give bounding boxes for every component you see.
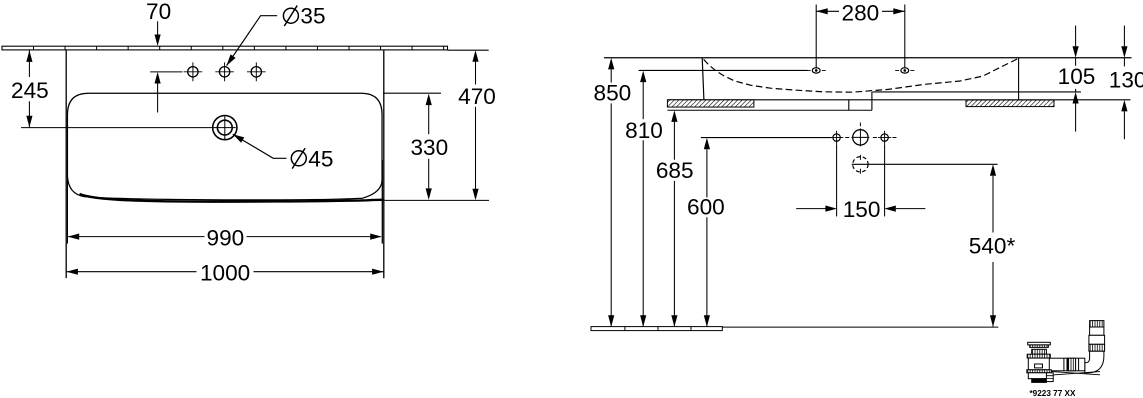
svg-text:150: 150: [843, 197, 881, 222]
basin right edge side: [1018, 58, 1020, 100]
svg-text:35: 35: [300, 3, 325, 28]
tap hole 3: [247, 62, 266, 81]
drain inner circle: [217, 120, 232, 135]
dim 470: [448, 50, 489, 189]
tap hole 2: [215, 62, 234, 81]
svg-text:*9223 77 XX: *9223 77 XX: [1030, 389, 1077, 398]
extension line rim top right: [383, 92, 441, 94]
drain outer circle: [213, 116, 237, 140]
svg-text:540*: 540*: [969, 234, 1016, 259]
svg-text:470: 470: [458, 84, 496, 109]
dim 130: [1123, 26, 1125, 140]
dashed drain hole circle: [853, 155, 868, 174]
wall bracket hatched left: [667, 100, 754, 107]
dim 245: [28, 50, 30, 127]
dim 850: [610, 69, 612, 326]
basin rim outline (top view): [67, 93, 382, 200]
label diameter 35 symbol: [283, 6, 298, 27]
horizontal pipe: [1045, 358, 1084, 371]
floor line: [722, 326, 998, 328]
svg-text:330: 330: [410, 135, 448, 160]
svg-text:245: 245: [11, 78, 49, 103]
dim 1000: [66, 271, 383, 273]
svg-text:685: 685: [656, 158, 694, 183]
drain fitting icon: [1027, 321, 1105, 383]
dim 990: [68, 236, 381, 238]
basin left edge side: [702, 58, 704, 100]
outlet channel line: [872, 91, 1081, 93]
rim edge extension right: [381, 160, 383, 244]
bowl profile dashed: [704, 59, 1018, 92]
extension lines down to 150 dim: [836, 144, 838, 216]
dim 810: [642, 82, 644, 326]
side view top surface line: [604, 57, 1132, 59]
ceramic bottom line: [667, 99, 1130, 101]
dim 600: [706, 149, 708, 326]
drain center line vertical: [224, 116, 226, 139]
mounting hole left: [807, 5, 826, 74]
dim 330: [428, 105, 430, 188]
basin front thick edge: [80, 194, 385, 202]
tap hole 1: [184, 62, 203, 81]
pop-up rod: [1048, 371, 1100, 375]
label diameter 35 leader: [227, 16, 278, 66]
vertical pipe: [1090, 321, 1104, 327]
svg-text:70: 70: [146, 0, 171, 24]
faucet hole reference line: [701, 137, 832, 139]
top mounting rail bar: [2, 46, 448, 50]
bracket underside line: [667, 109, 872, 111]
floor bar: [591, 327, 722, 331]
faucet hole small left: [830, 131, 843, 145]
extension line bottom right: [385, 199, 489, 201]
dim 685: [673, 122, 675, 327]
mounting hole right: [895, 5, 914, 74]
mounting hole center line: [639, 69, 808, 71]
svg-text:1000: 1000: [200, 260, 250, 285]
svg-text:600: 600: [687, 195, 725, 220]
faucet hole large center: [851, 123, 869, 147]
pop-up waste top plate: [1028, 342, 1051, 345]
dim 105: [1075, 26, 1077, 132]
svg-text:990: 990: [207, 225, 245, 250]
drain box left edge: [848, 100, 850, 110]
svg-text:280: 280: [842, 0, 880, 25]
svg-text:105: 105: [1058, 64, 1096, 89]
rail tick marks: [34, 46, 444, 50]
faucet hole small right: [878, 131, 891, 145]
dim 540*: [992, 176, 994, 327]
svg-text:45: 45: [308, 147, 333, 172]
drain center line horizontal: [21, 127, 236, 129]
svg-text:130: 130: [1109, 67, 1143, 92]
drain box right edge: [871, 92, 873, 110]
label diameter 45 leader: [233, 134, 287, 158]
dim 70: [150, 21, 182, 112]
dim 150: [796, 208, 925, 210]
svg-text:810: 810: [625, 118, 663, 143]
basin outer left edge: [65, 50, 67, 278]
line to 540 dim: [852, 163, 998, 165]
rim edge extension left: [66, 160, 68, 244]
elbow: [1085, 351, 1104, 373]
svg-text:850: 850: [594, 81, 632, 106]
label diameter 45 symbol: [291, 148, 306, 169]
dim 280: [816, 10, 905, 12]
basin outer right edge: [383, 50, 385, 278]
wall bracket hatched right: [966, 100, 1054, 107]
